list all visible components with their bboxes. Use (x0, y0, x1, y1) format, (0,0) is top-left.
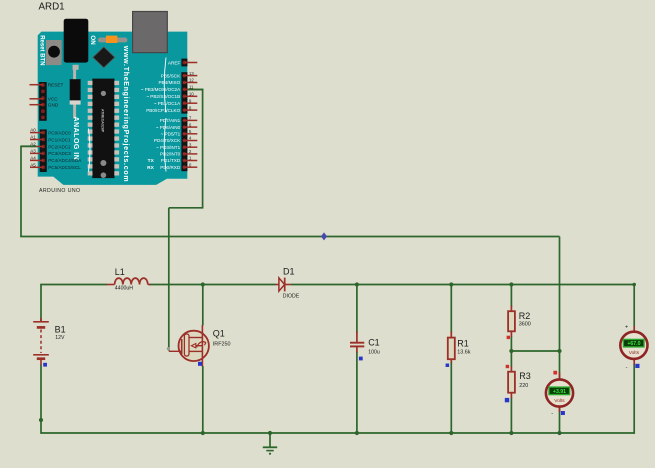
voltmeter VM1 reading +3.91 Volts (546, 373, 573, 413)
junction: R2 on output rail (509, 282, 513, 286)
diode D1 (275, 278, 291, 292)
svg-text:R1: R1 (457, 338, 469, 348)
wire: R1 top lead (450, 285, 452, 333)
marker: VM1 red plus square (553, 371, 557, 375)
ARD1 digital pins 7-0 stubs, numbers and port labels (147, 116, 197, 171)
svg-text:L1: L1 (115, 267, 125, 277)
junction: R3 on ground rail (509, 431, 513, 435)
wire: C1 top lead (356, 285, 358, 333)
wire: L1 to Q1 drain / D1 anode segment (150, 284, 276, 286)
svg-text:~ PB1/OC1A: ~ PB1/OC1A (154, 101, 181, 106)
svg-text:PD1/TXD: PD1/TXD (161, 158, 181, 163)
voltmeter VM2 reading +67.0 Volts (620, 326, 647, 365)
svg-text:PD2/INT0: PD2/INT0 (160, 152, 181, 157)
wire: gate drive vertical beside ARD1 (202, 90, 204, 208)
ARD1 usb connector (133, 12, 168, 53)
svg-text:~ PD3/INT1: ~ PD3/INT1 (156, 145, 181, 150)
junction: C1 on ground rail (355, 431, 359, 435)
svg-text:GND: GND (48, 103, 59, 108)
svg-text:TX: TX (148, 158, 155, 164)
wire: feedback left vertical segment (20, 146, 22, 237)
svg-text:A3: A3 (30, 149, 36, 154)
ARD1 AREF pin block (168, 59, 197, 67)
svg-text:D1: D1 (283, 267, 295, 277)
ARD1 reset button (46, 40, 62, 65)
marker: R2 red origin square (507, 336, 510, 339)
wire: pin-11 stub overlay (green over pin stub) (188, 89, 203, 91)
wire: R2 top lead (510, 285, 512, 307)
marker: B1 blue origin square (43, 363, 47, 367)
ground symbol (263, 433, 277, 455)
marker: R3 blue origin square (505, 398, 509, 402)
svg-text:4400uH: 4400uH (115, 286, 133, 292)
svg-text:~ PD6/AIN0: ~ PD6/AIN0 (156, 125, 181, 130)
wire: VM2 branch vertical bottom (633, 364, 635, 434)
marker: R3 red origin square (506, 365, 509, 368)
marker: R1 blue origin square (446, 364, 450, 368)
svg-text:12: 12 (189, 78, 194, 83)
svg-text:~ PB2/SS/OC1B: ~ PB2/SS/OC1B (146, 94, 180, 99)
ARD1 pin VCC with stub (30, 98, 44, 100)
svg-text:PC3/ADC3: PC3/ADC3 (48, 151, 71, 156)
svg-text:PC0/ADC0: PC0/ADC0 (48, 130, 71, 135)
ARD1 pin GND with stub (30, 104, 44, 106)
svg-text:A0: A0 (30, 128, 36, 133)
svg-text:RESET: RESET (48, 83, 64, 88)
wire: VM2 branch vertical top (633, 285, 635, 327)
svg-text:+67.0: +67.0 (627, 341, 640, 347)
ARD1 left power header strip (39, 82, 47, 121)
svg-text:PD0/RXD: PD0/RXD (160, 165, 181, 170)
svg-text:+3.91: +3.91 (553, 389, 566, 395)
ARD1 analog pins A0-A5 stubs, pin names and labels (30, 128, 82, 171)
ARD1 small pad below jack (73, 65, 79, 70)
transistor Q1 IRF250 n-channel MOSFET (167, 325, 209, 366)
svg-text:A5: A5 (30, 162, 36, 167)
marker: VM1 blue origin square (561, 411, 565, 415)
inductor L1 4400uH (107, 278, 151, 284)
svg-text:10: 10 (189, 92, 194, 97)
svg-text:AREF: AREF (168, 60, 181, 65)
ARD1 digital header strip 7-0 (181, 117, 187, 171)
svg-text:-: - (626, 364, 628, 370)
ARD1 white bracket around digital labels upper (164, 58, 166, 113)
svg-text:ON: ON (89, 35, 96, 45)
svg-text:3600: 3600 (519, 322, 531, 328)
svg-text:PD7/AIN1: PD7/AIN1 (160, 118, 181, 123)
capacitor C1 100u (350, 332, 364, 353)
junction: Q1 drain on top rail (201, 282, 205, 286)
svg-text:Volts: Volts (554, 398, 565, 404)
wire: top rail from battery to L1 (40, 284, 107, 286)
junction: Q1 source on ground rail (201, 431, 205, 435)
svg-text:PB0/ICP1/CLKO: PB0/ICP1/CLKO (146, 108, 180, 113)
marker: VM2 blue origin square (635, 364, 639, 368)
svg-text:A1: A1 (30, 135, 36, 140)
ARD1 pin RESET with stub (30, 84, 44, 86)
svg-text:VCC: VCC (48, 97, 59, 102)
junction: C1 on output rail (355, 282, 359, 286)
marker: Q1 blue origin square (198, 362, 202, 366)
svg-text:IRF250: IRF250 (213, 341, 231, 347)
resistor R2 3600 (508, 306, 515, 337)
svg-text:ARD1: ARD1 (39, 1, 65, 12)
svg-text:-: - (551, 411, 553, 417)
svg-text:13.6k: 13.6k (457, 350, 470, 356)
svg-text:C1: C1 (368, 337, 380, 347)
wire: gate drive stub from ARD1 pin 11 (188, 89, 204, 91)
svg-text:DIODE: DIODE (283, 293, 300, 299)
svg-text:PC2/ADC2: PC2/ADC2 (48, 144, 71, 149)
wire: R2/R3 junction to voltmeter branch horizontal (511, 350, 559, 352)
ARD1 power LED with ON label (98, 38, 127, 43)
svg-text:12V: 12V (55, 335, 65, 341)
ARD1 pcb board body (38, 32, 188, 185)
wire: Q1 source vertical to ground rail (202, 366, 204, 433)
svg-text:ANALOG IN: ANALOG IN (72, 117, 79, 161)
svg-text:A4: A4 (30, 156, 36, 161)
svg-text:PC4/ADC4/SDA: PC4/ADC4/SDA (48, 158, 82, 163)
wire: bottom ground rail (41, 432, 635, 434)
svg-text:PB5/SCK: PB5/SCK (161, 73, 181, 78)
svg-text:100u: 100u (368, 349, 380, 355)
svg-text:Reset BTN: Reset BTN (38, 35, 44, 65)
wire: voltmeter VM1 positive lead (559, 351, 561, 380)
wire: feedback right vertical segment down to divider (559, 237, 561, 352)
ARD1 analog header strip (40, 129, 47, 172)
node marker: blue diamond on feedback net (321, 232, 327, 240)
wire: A2 feedback stub from ARD1 pin A2 (21, 145, 34, 147)
svg-text:Volts: Volts (629, 350, 640, 356)
svg-text:~ PB3/MOSI/OC2A: ~ PB3/MOSI/OC2A (141, 87, 181, 92)
svg-text:~ PD5/T1: ~ PD5/T1 (161, 132, 181, 137)
junction: VM2 corner on output rail (632, 283, 636, 287)
junction: on battery negative wire (39, 418, 43, 422)
svg-text:PB4/MISO: PB4/MISO (158, 80, 180, 85)
junction: R1 on output rail (449, 282, 453, 286)
svg-text:www.TheEngineeringProjects.com: www.TheEngineeringProjects.com (122, 45, 129, 182)
svg-text:R2: R2 (519, 311, 531, 321)
svg-text:ARDUINO UNO: ARDUINO UNO (39, 188, 81, 194)
svg-text:PC1/ADC1: PC1/ADC1 (48, 137, 71, 142)
wire: gate drive vertical down to Q1 gate (168, 208, 170, 351)
svg-text:PC5/ADC5/SCL: PC5/ADC5/SCL (48, 165, 81, 170)
wire: voltmeter VM1 negative lead to ground rail (559, 407, 561, 434)
wire: R1 bottom lead (450, 362, 452, 433)
svg-text:220: 220 (519, 383, 528, 389)
ARD1 black diamond component (93, 47, 115, 68)
wire: battery positive vertical (40, 285, 42, 322)
wire: feedback long horizontal net at y=236 (20, 236, 559, 238)
battery B1 12V (33, 318, 49, 365)
svg-text:R3: R3 (519, 371, 531, 381)
ARD1 crystal with stick (73, 66, 76, 119)
ARD1 ATMEGA328 DIP IC (88, 79, 119, 179)
wire: A2 stub overlay (green over pin stub) (21, 145, 37, 147)
svg-text:Q1: Q1 (213, 329, 225, 339)
marker: C1 blue origin square (359, 357, 363, 361)
wire: battery negative vertical (40, 365, 42, 434)
junction: ground symbol tap on rail (268, 431, 272, 435)
Arduino UNO module ARD1 (30, 1, 198, 193)
wire: R3 bottom lead (510, 398, 512, 434)
resistor R1 13.6k (448, 332, 455, 363)
svg-text:B1: B1 (55, 325, 66, 335)
wire: C1 bottom lead (356, 352, 358, 434)
svg-text:RX: RX (147, 165, 154, 171)
svg-text:PD4/T0/XCK: PD4/T0/XCK (154, 138, 181, 143)
ARD1 digital pins 13-8 stubs, numbers and port labels (141, 71, 198, 113)
wire: R2 to R3 middle lead (510, 336, 512, 367)
ARD1 white bracket around analog labels (89, 129, 91, 172)
svg-text:13: 13 (189, 71, 194, 76)
ARD1 digital header strip 13-8 (181, 72, 187, 113)
ARD1 dc power jack (64, 19, 89, 63)
wire: Q1 drain vertical (202, 285, 204, 326)
junction: R1 on ground rail (449, 431, 453, 435)
svg-text:ATMEGA328P: ATMEGA328P (100, 109, 104, 133)
junction: R2/R3 divider tap (509, 349, 513, 353)
wire: gate drive horizontal jog (169, 207, 204, 209)
resistor R3 220 (508, 367, 515, 399)
ARD1 white bracket around digital labels lower (164, 118, 166, 172)
wire: output rail from D1 cathode to VM2 branch (291, 284, 634, 286)
junction: VM1 on ground rail (557, 431, 561, 435)
svg-text:+: + (625, 324, 628, 330)
junction: feedback tap meets VM1 branch (557, 349, 561, 353)
